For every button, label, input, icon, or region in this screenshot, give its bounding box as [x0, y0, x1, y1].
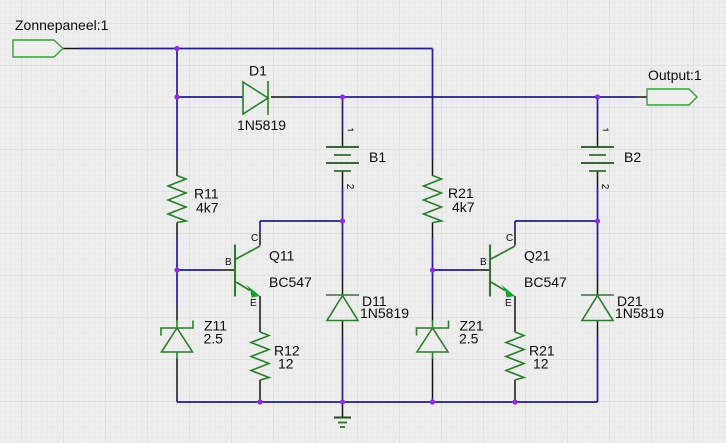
node: junction Q21 collector: [595, 218, 600, 223]
svg-text:Q21: Q21: [524, 248, 551, 264]
svg-text:2.5: 2.5: [459, 330, 479, 346]
svg-text:BC547: BC547: [524, 274, 567, 290]
wire: B1 column down to D11: [342, 221, 344, 295]
battery B2: [581, 147, 614, 171]
wire: Q11 collector to B1/D11 column: [260, 221, 343, 246]
svg-text:BC547: BC547: [269, 274, 312, 290]
battery B1: [326, 147, 359, 171]
wire: Q21 emitter down to R21 (12): [514, 296, 516, 332]
transistor Q11: [235, 245, 260, 298]
node: junction D1 cathode / B1: [340, 94, 345, 99]
svg-text:E: E: [505, 298, 512, 309]
wire: Z21 bottom to ground bus: [432, 358, 434, 402]
wire: B2 top pin: [597, 97, 599, 147]
resistor R21 (4k7): [424, 176, 442, 223]
wire: left bus base junction down to Z11: [176, 270, 178, 321]
wire: bottom ground bus: [177, 401, 598, 403]
wire: D1 cathode to B1 column to output junction: [271, 96, 598, 98]
node: junction Q11 base: [174, 267, 179, 272]
wire: Z11 bottom to ground bus: [176, 358, 178, 402]
svg-text:4k7: 4k7: [196, 200, 219, 216]
resistor R21 (12): [506, 332, 524, 380]
svg-text:Output:1: Output:1: [648, 67, 702, 83]
svg-text:1N5819: 1N5819: [615, 305, 664, 321]
connector Output:1: [647, 89, 697, 105]
svg-text:E: E: [250, 298, 257, 309]
wire: B1 bottom pin down to collector junction: [342, 171, 344, 221]
transistor Q21: [490, 245, 515, 298]
svg-text:12: 12: [533, 356, 549, 372]
svg-text:B: B: [480, 257, 487, 268]
wire: R21 bottom to Q21 base junction: [432, 223, 434, 271]
wire: R11 bottom to Q11 base junction: [176, 223, 178, 271]
svg-text:4k7: 4k7: [452, 199, 475, 215]
zener Z11: [161, 320, 193, 359]
wire: D1 anode from left bus: [177, 96, 243, 98]
node: junction R21 (12) ground: [512, 399, 517, 404]
wire: B2 column down to D21: [597, 221, 599, 295]
node: junction ground symbol: [340, 399, 345, 404]
zener Z21: [417, 320, 449, 359]
wire: D11 anode down to ground bus: [342, 321, 344, 402]
wire: left bus from top junction down to R11: [176, 49, 178, 177]
wire: Q11 base wire: [177, 269, 234, 271]
svg-text:1: 1: [344, 127, 355, 133]
node: junction Z21 ground: [430, 399, 435, 404]
node: junction top left: [174, 46, 179, 51]
svg-text:1: 1: [599, 127, 610, 133]
svg-text:1N5819: 1N5819: [237, 117, 286, 133]
svg-text:B2: B2: [624, 149, 641, 165]
wire: R12 bottom to ground bus: [259, 380, 261, 401]
diode D1: [243, 81, 268, 115]
svg-text:B1: B1: [369, 149, 386, 165]
ground: [334, 402, 351, 427]
wire: output junction to Output connector: [598, 96, 648, 98]
node: junction output / B2: [595, 94, 600, 99]
wire: Q21 collector to B2/D21 column: [515, 221, 598, 246]
node: junction Q11 collector: [340, 218, 345, 223]
svg-text:2: 2: [599, 184, 610, 190]
svg-text:1N5819: 1N5819: [360, 305, 409, 321]
svg-text:B: B: [225, 257, 232, 268]
diode D11: [326, 295, 359, 321]
resistor R12: [251, 332, 269, 380]
svg-text:Zonnepaneel:1: Zonnepaneel:1: [15, 17, 109, 33]
diode D21: [581, 295, 614, 321]
connector Zonnepaneel:1: [13, 40, 63, 57]
wire: Q11 emitter down to R12: [259, 296, 261, 332]
wire: B2 bottom pin down to collector junction: [597, 171, 599, 221]
wire: top net from Zonnepaneel to R21 column: [63, 49, 433, 177]
svg-text:12: 12: [278, 356, 294, 372]
wire: B1 top pin: [342, 97, 344, 147]
svg-text:C: C: [506, 233, 513, 244]
svg-text:Q11: Q11: [269, 248, 295, 264]
svg-text:2.5: 2.5: [204, 330, 224, 346]
wire: D21 anode down to ground bus: [597, 321, 599, 402]
svg-text:2: 2: [344, 184, 355, 190]
wire: Q21 base wire: [433, 269, 490, 271]
node: junction D1 anode: [174, 94, 179, 99]
resistor R11: [168, 176, 186, 223]
wire: R21 column base junction down to Z21: [432, 270, 434, 321]
wire: R21 (12) bottom to ground bus: [514, 380, 516, 401]
svg-text:C: C: [251, 233, 258, 244]
svg-text:D1: D1: [249, 63, 267, 79]
node: junction Q21 base: [430, 267, 435, 272]
node: junction R12 ground: [257, 399, 262, 404]
